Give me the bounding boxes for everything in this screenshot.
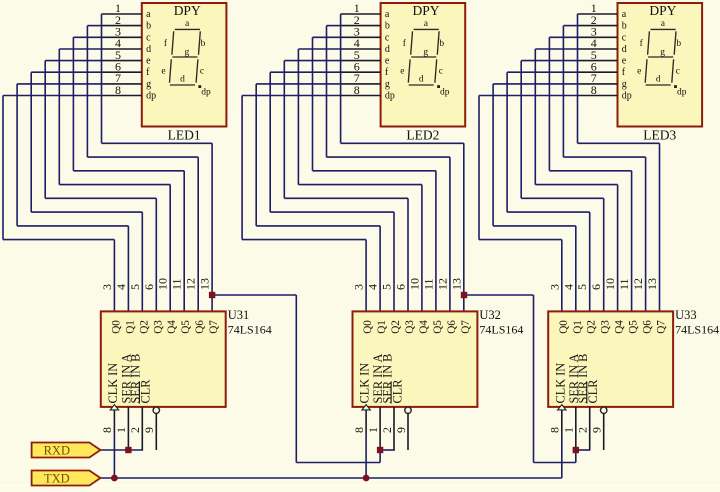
pin 9 (CLR) of U32 xyxy=(390,379,411,450)
pin 2 (SER IN B) of U32 xyxy=(380,354,395,450)
svg-text:5: 5 xyxy=(128,284,142,290)
svg-text:11: 11 xyxy=(421,278,435,290)
pin 2 of LED1 (b) xyxy=(102,13,152,32)
wire LED3 pin 2 (b) to U33 pin 12 xyxy=(563,26,645,312)
pin 4 (Q1) of U32 xyxy=(366,284,389,334)
pin 11 (Q5) of U31 xyxy=(170,278,193,333)
svg-text:b: b xyxy=(439,39,444,49)
pin 1 of LED2 (a) xyxy=(341,1,390,20)
svg-text:8: 8 xyxy=(100,427,114,433)
svg-text:3: 3 xyxy=(352,284,366,290)
svg-text:8: 8 xyxy=(352,427,366,433)
svg-text:Q4: Q4 xyxy=(418,320,430,334)
svg-text:U31: U31 xyxy=(228,308,250,322)
pin 4 of LED3 (d) xyxy=(578,36,627,55)
wire LED2 pin 8 (dp) to U32 pin 3 xyxy=(242,96,366,312)
label DPY of LED1 xyxy=(174,3,201,18)
wire LED3 pin 6 (f) to U33 pin 5 xyxy=(507,72,590,311)
pin 8 (CLK IN) of U31 xyxy=(100,363,120,435)
junction RXD at U31 SER IN A xyxy=(125,447,131,453)
designator LED1 xyxy=(168,128,201,143)
wire LED3 pin 1 (a) to U33 pin 13 xyxy=(578,14,660,311)
pin 7 of LED1 (g) xyxy=(102,71,152,90)
segment g of LED2 xyxy=(411,56,436,58)
pin 8 of LED1 (dp) xyxy=(102,83,157,102)
svg-text:U33: U33 xyxy=(675,308,697,322)
pin 3 of LED1 (c) xyxy=(102,25,152,44)
segment b of LED2 xyxy=(437,31,439,54)
wire LED1 pin 6 (f) to U31 pin 5 xyxy=(31,72,142,311)
svg-text:g: g xyxy=(622,79,627,90)
svg-text:c: c xyxy=(385,32,390,43)
svg-text:9: 9 xyxy=(142,427,156,433)
svg-text:Q4: Q4 xyxy=(614,320,626,334)
wire LED3 pin 7 (g) to U33 pin 4 xyxy=(493,84,577,312)
value 74LS164 of U32 xyxy=(479,323,523,337)
junction U32 pin 13 Q7 xyxy=(461,292,467,298)
svg-text:13: 13 xyxy=(198,278,212,290)
pin 10 (Q4) of U33 xyxy=(603,278,626,334)
pin 5 (Q2) of U33 xyxy=(575,284,598,334)
svg-text:a: a xyxy=(622,9,627,20)
svg-text:13: 13 xyxy=(645,278,659,290)
pin 4 of LED2 (d) xyxy=(341,36,390,55)
segment f of LED2 xyxy=(411,31,413,54)
pin 9 (CLR) of U31 xyxy=(139,379,160,450)
svg-text:Q6: Q6 xyxy=(446,320,458,334)
pin 8 (CLK IN) of U32 xyxy=(352,363,372,435)
junction TXD at U31 CLK xyxy=(111,475,118,482)
wire LED2 pin 1 (a) to U32 pin 13 xyxy=(341,14,464,311)
svg-text:e: e xyxy=(385,56,390,67)
pin 12 (Q6) of U31 xyxy=(184,278,207,334)
svg-text:b: b xyxy=(676,39,681,49)
wire LED1 pin 7 (g) to U31 pin 4 xyxy=(17,84,128,312)
wire LED1 pin 1 (a) to U31 pin 13 xyxy=(102,14,213,311)
display LED2 (DPY 7-segment) xyxy=(381,3,466,127)
svg-text:Q7: Q7 xyxy=(460,320,472,334)
pin 3 (Q0) of U31 xyxy=(100,284,123,334)
svg-text:b: b xyxy=(385,21,390,32)
segment g of LED1 xyxy=(172,56,197,58)
pin 3 (Q0) of U32 xyxy=(352,284,375,334)
svg-text:1: 1 xyxy=(114,427,128,433)
pin 4 (Q1) of U33 xyxy=(561,284,584,334)
svg-text:b: b xyxy=(201,39,206,49)
svg-text:Q2: Q2 xyxy=(586,320,598,334)
svg-text:CLR: CLR xyxy=(390,379,404,404)
designator U33 xyxy=(675,308,697,322)
pin 7 of LED2 (g) xyxy=(341,71,390,90)
svg-text:8: 8 xyxy=(591,83,597,97)
svg-text:8: 8 xyxy=(548,427,562,433)
svg-text:LED1: LED1 xyxy=(168,128,201,143)
decimal point dp of LED3 xyxy=(674,85,677,88)
svg-text:b: b xyxy=(146,21,151,32)
pin 6 of LED2 (f) xyxy=(341,60,389,79)
pin 2 (SER IN B) of U31 xyxy=(128,354,143,450)
wire LED2 pin 4 (d) to U32 pin 10 xyxy=(298,49,422,311)
segment labels of LED1 xyxy=(161,19,211,97)
pin 8 of LED3 (dp) xyxy=(578,83,632,102)
pin 6 (Q3) of U32 xyxy=(394,284,417,334)
pin 8 of LED2 (dp) xyxy=(341,83,395,102)
wire U31 Q7 (pin 13) to U32 SER IN A/B : serial chain xyxy=(212,295,395,463)
pin 2 (SER IN B) of U33 xyxy=(576,354,591,450)
junction U31 pin 13 Q7 xyxy=(209,292,215,298)
pin 8 (CLK IN) of U33 xyxy=(548,363,568,435)
svg-text:Q2: Q2 xyxy=(138,320,150,334)
wire TXD net to CLK pins of U31 U32 U33 xyxy=(100,435,561,478)
svg-text:TXD: TXD xyxy=(44,472,70,486)
pin 5 of LED1 (e) xyxy=(102,48,152,67)
svg-text:74LS164: 74LS164 xyxy=(675,323,719,337)
pin 4 of LED1 (d) xyxy=(102,36,152,55)
svg-text:Q1: Q1 xyxy=(124,320,136,334)
segment b of LED1 xyxy=(199,31,201,54)
shift register U31 74LS164 xyxy=(101,311,226,407)
svg-text:RXD: RXD xyxy=(44,444,70,458)
svg-text:a: a xyxy=(146,9,151,20)
svg-text:g: g xyxy=(660,47,665,57)
svg-text:Q4: Q4 xyxy=(166,320,178,334)
svg-text:12: 12 xyxy=(184,278,198,290)
clock input triangle marker on pin 8 of U33 xyxy=(558,405,566,410)
svg-text:dp: dp xyxy=(385,91,395,102)
pin 5 (Q2) of U32 xyxy=(380,284,403,334)
wire LED2 pin 5 (e) to U32 pin 6 xyxy=(284,61,408,312)
wire LED3 pin 4 (d) to U33 pin 10 xyxy=(535,49,617,311)
svg-text:DPY: DPY xyxy=(649,3,676,18)
pin 5 (Q2) of U31 xyxy=(128,284,151,334)
svg-text:DPY: DPY xyxy=(174,3,201,18)
svg-text:Q0: Q0 xyxy=(110,320,122,334)
svg-text:dp: dp xyxy=(201,88,211,98)
svg-text:1: 1 xyxy=(366,427,380,433)
wire LED1 pin 8 (dp) to U31 pin 3 xyxy=(3,96,114,312)
pin 1 (SER IN A) of U33 xyxy=(562,354,581,450)
svg-text:CLK IN: CLK IN xyxy=(106,363,120,404)
svg-text:CLK IN: CLK IN xyxy=(358,363,372,404)
shift register U33 74LS164 xyxy=(548,311,673,407)
svg-text:b: b xyxy=(622,21,627,32)
svg-text:CLR: CLR xyxy=(586,379,600,404)
shift register U32 74LS164 xyxy=(353,311,478,407)
pin 3 (Q0) of U33 xyxy=(547,284,570,334)
svg-text:c: c xyxy=(622,32,627,43)
svg-text:DPY: DPY xyxy=(412,3,439,18)
svg-text:Q6: Q6 xyxy=(642,320,654,334)
pin 13 (Q7) of U33 xyxy=(645,278,668,334)
svg-text:dp: dp xyxy=(146,91,156,102)
svg-text:d: d xyxy=(656,75,661,85)
pin 6 of LED1 (f) xyxy=(102,60,151,79)
svg-text:LED2: LED2 xyxy=(406,128,439,143)
svg-text:4: 4 xyxy=(114,284,128,290)
svg-text:Q7: Q7 xyxy=(208,320,220,334)
pin 1 of LED1 (a) xyxy=(102,1,152,20)
junction chain at U32 SER IN A xyxy=(377,447,383,453)
svg-text:g: g xyxy=(385,79,390,90)
wire RXD net to SER IN A / SER IN B of U31 xyxy=(100,449,143,451)
svg-text:Q3: Q3 xyxy=(404,320,416,334)
svg-text:c: c xyxy=(676,66,680,76)
svg-text:e: e xyxy=(637,66,641,76)
pin 6 (Q3) of U31 xyxy=(142,284,165,334)
wire LED1 pin 4 (d) to U31 pin 10 xyxy=(59,49,170,311)
svg-text:U32: U32 xyxy=(479,308,501,322)
svg-text:d: d xyxy=(419,75,424,85)
svg-text:Q0: Q0 xyxy=(362,320,374,334)
svg-text:74LS164: 74LS164 xyxy=(479,323,523,337)
svg-text:Q5: Q5 xyxy=(180,320,192,334)
svg-text:d: d xyxy=(622,44,627,55)
svg-text:2: 2 xyxy=(128,427,142,433)
wire LED2 pin 6 (f) to U32 pin 5 xyxy=(270,72,394,311)
svg-text:13: 13 xyxy=(449,278,463,290)
pin 11 (Q5) of U32 xyxy=(421,278,444,333)
segment c of LED1 xyxy=(196,59,198,82)
svg-text:dp: dp xyxy=(440,88,450,98)
segment f of LED3 xyxy=(648,31,650,54)
segment labels of LED3 xyxy=(637,19,687,97)
svg-text:d: d xyxy=(180,75,185,85)
value 74LS164 of U31 xyxy=(228,323,272,337)
label DPY of LED2 xyxy=(412,3,439,18)
pin 2 of LED3 (b) xyxy=(578,13,627,32)
svg-text:e: e xyxy=(161,66,165,76)
pin 3 of LED2 (c) xyxy=(341,25,390,44)
segment e of LED2 xyxy=(408,59,410,82)
segment d of LED1 xyxy=(170,84,195,86)
display LED1 (DPY 7-segment) xyxy=(142,3,227,127)
pin 11 (Q5) of U33 xyxy=(617,278,640,333)
segment labels of LED2 xyxy=(400,19,450,97)
svg-text:CLK IN: CLK IN xyxy=(553,363,567,404)
segment a of LED2 xyxy=(414,28,439,30)
designator U32 xyxy=(479,308,501,322)
svg-text:5: 5 xyxy=(575,284,589,290)
svg-text:9: 9 xyxy=(394,427,408,433)
pin 5 of LED2 (e) xyxy=(341,48,390,67)
svg-text:Q1: Q1 xyxy=(376,320,388,334)
svg-text:10: 10 xyxy=(603,278,617,290)
svg-text:Q7: Q7 xyxy=(656,320,668,334)
pin 1 (SER IN A) of U32 xyxy=(366,354,385,450)
pin 10 (Q4) of U31 xyxy=(156,278,179,334)
svg-text:8: 8 xyxy=(354,83,360,97)
svg-text:Q3: Q3 xyxy=(152,320,164,334)
svg-text:c: c xyxy=(200,66,204,76)
svg-text:c: c xyxy=(439,66,443,76)
svg-text:dp: dp xyxy=(677,88,687,98)
segment d of LED2 xyxy=(409,84,434,86)
designator LED2 xyxy=(406,128,439,143)
svg-text:g: g xyxy=(185,47,190,57)
svg-text:e: e xyxy=(146,56,151,67)
svg-text:Q6: Q6 xyxy=(194,320,206,334)
svg-text:d: d xyxy=(146,44,151,55)
svg-text:12: 12 xyxy=(435,278,449,290)
clock input triangle marker on pin 8 of U31 xyxy=(110,405,118,410)
wire LED2 pin 3 (c) to U32 pin 11 xyxy=(313,37,436,311)
wire LED1 pin 3 (c) to U31 pin 11 xyxy=(73,37,184,311)
pin 4 (Q1) of U31 xyxy=(114,284,136,334)
junction chain at U33 SER IN A xyxy=(573,447,579,453)
display LED3 (DPY 7-segment) xyxy=(618,3,703,127)
segment g of LED3 xyxy=(648,56,673,58)
wire LED1 pin 5 (e) to U31 pin 6 xyxy=(45,61,156,312)
svg-text:g: g xyxy=(146,79,151,90)
svg-text:6: 6 xyxy=(394,284,408,290)
pin 3 of LED3 (c) xyxy=(578,25,627,44)
svg-text:8: 8 xyxy=(115,83,121,97)
svg-text:g: g xyxy=(423,47,428,57)
svg-text:74LS164: 74LS164 xyxy=(228,323,272,337)
svg-text:9: 9 xyxy=(590,427,604,433)
pin 10 (Q4) of U32 xyxy=(407,278,430,334)
port RXD xyxy=(32,443,101,458)
svg-text:1: 1 xyxy=(562,427,576,433)
svg-text:12: 12 xyxy=(631,278,645,290)
segment e of LED1 xyxy=(170,59,172,82)
pin 12 (Q6) of U32 xyxy=(435,278,458,334)
svg-text:dp: dp xyxy=(622,91,632,102)
pin 6 (Q3) of U33 xyxy=(589,284,612,334)
wire LED1 pin 2 (b) to U31 pin 12 xyxy=(87,26,198,312)
svg-text:5: 5 xyxy=(380,284,394,290)
svg-text:CLR: CLR xyxy=(139,379,153,404)
designator LED3 xyxy=(643,128,676,143)
decimal point dp of LED2 xyxy=(437,85,440,88)
pin 6 of LED3 (f) xyxy=(578,60,626,79)
svg-text:Q5: Q5 xyxy=(432,320,444,334)
svg-text:4: 4 xyxy=(366,284,380,290)
svg-text:Q3: Q3 xyxy=(600,320,612,334)
wire LED3 pin 8 (dp) to U33 pin 3 xyxy=(479,96,578,312)
svg-text:4: 4 xyxy=(561,284,575,290)
wire LED3 pin 5 (e) to U33 pin 6 xyxy=(521,61,604,312)
pin 7 of LED3 (g) xyxy=(578,71,627,90)
svg-text:6: 6 xyxy=(589,284,603,290)
pin 5 of LED3 (e) xyxy=(578,48,627,67)
svg-text:e: e xyxy=(400,66,404,76)
pin 12 (Q6) of U33 xyxy=(631,278,654,334)
pin 1 (SER IN A) of U31 xyxy=(114,354,133,450)
segment c of LED2 xyxy=(435,59,437,82)
svg-text:11: 11 xyxy=(170,278,184,290)
segment a of LED1 xyxy=(175,28,200,30)
segment b of LED3 xyxy=(674,31,676,54)
pin 13 (Q7) of U32 xyxy=(449,278,472,334)
svg-text:Q2: Q2 xyxy=(390,320,402,334)
pin 2 of LED2 (b) xyxy=(341,13,390,32)
designator U31 xyxy=(228,308,250,322)
svg-text:6: 6 xyxy=(142,284,156,290)
decimal point dp of LED1 xyxy=(198,85,201,88)
svg-text:a: a xyxy=(385,9,390,20)
wire U32 Q7 (pin 13) to U33 SER IN A/B : serial chain xyxy=(464,295,591,463)
svg-text:10: 10 xyxy=(407,278,421,290)
segment a of LED3 xyxy=(651,28,676,30)
svg-text:11: 11 xyxy=(617,278,631,290)
svg-text:2: 2 xyxy=(576,427,590,433)
segment e of LED3 xyxy=(645,59,647,82)
svg-text:Q0: Q0 xyxy=(558,320,570,334)
svg-text:LED3: LED3 xyxy=(643,128,676,143)
value 74LS164 of U33 xyxy=(675,323,719,337)
port TXD xyxy=(32,471,101,486)
svg-text:3: 3 xyxy=(100,284,114,290)
pin 9 (CLR) of U33 xyxy=(586,379,607,450)
pin 13 (Q7) of U31 xyxy=(198,278,221,334)
segment c of LED3 xyxy=(672,59,674,82)
pin 1 of LED3 (a) xyxy=(578,1,627,20)
clock input triangle marker on pin 8 of U32 xyxy=(362,405,370,410)
svg-text:e: e xyxy=(622,56,627,67)
segment f of LED1 xyxy=(172,31,174,54)
svg-text:10: 10 xyxy=(156,278,170,290)
wire LED2 pin 7 (g) to U32 pin 4 xyxy=(256,84,380,312)
segment d of LED3 xyxy=(646,84,671,86)
label DPY of LED3 xyxy=(649,3,676,18)
junction TXD at U32 CLK xyxy=(363,475,370,482)
svg-text:Q5: Q5 xyxy=(628,320,640,334)
svg-text:d: d xyxy=(385,44,390,55)
svg-text:c: c xyxy=(146,32,151,43)
svg-text:Q1: Q1 xyxy=(572,320,584,334)
wire LED2 pin 2 (b) to U32 pin 12 xyxy=(327,26,450,312)
svg-text:3: 3 xyxy=(547,284,561,290)
svg-text:2: 2 xyxy=(380,427,394,433)
wire LED3 pin 3 (c) to U33 pin 11 xyxy=(549,37,631,311)
